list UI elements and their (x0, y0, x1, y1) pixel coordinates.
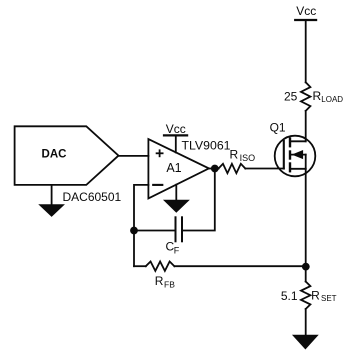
wire R_LOAD to Q1 drain (305, 111, 307, 141)
svg-text:FB: FB (164, 279, 175, 289)
svg-text:R: R (155, 274, 164, 288)
svg-text:Q1: Q1 (270, 121, 286, 135)
resistor R_SET (281, 282, 337, 310)
node junction dot (source / R_FB / R_SET) (302, 263, 310, 271)
capacitor C_F (166, 217, 183, 255)
svg-text:SET: SET (321, 294, 337, 303)
resistor R_ISO (219, 148, 256, 174)
wire to R_FB left end (134, 265, 146, 267)
wire op-amp bottom to ground (175, 185, 177, 201)
ground symbol (DAC) (40, 205, 64, 216)
wire node to C_F left plate (134, 230, 175, 232)
svg-text:F: F (174, 245, 180, 255)
svg-text:Vcc: Vcc (166, 122, 186, 136)
svg-text:LOAD: LOAD (321, 95, 343, 104)
wire op-amp minus input to left (134, 185, 148, 231)
svg-text:TLV9061: TLV9061 (182, 139, 231, 153)
ground symbol (op-amp) (164, 200, 188, 212)
svg-text:DAC60501: DAC60501 (63, 190, 122, 204)
wire node to R_SET (305, 267, 307, 282)
wire Vcc to R_LOAD (305, 20, 307, 82)
ground symbol (R_SET) (293, 335, 318, 348)
wire DAC bottom to ground (51, 185, 53, 205)
wire Q1 source down to node (305, 169, 307, 267)
wire R_ISO to Q1 gate (245, 168, 283, 170)
svg-text:5.1: 5.1 (281, 289, 298, 303)
svg-text:DAC: DAC (42, 149, 67, 161)
node junction dot (C_F / R_FB) (130, 227, 138, 235)
Vcc supply rail (op-amp) (164, 122, 187, 152)
op-amp A1 (148, 139, 209, 198)
svg-text:R: R (230, 148, 239, 162)
DAC block U (DAC60501) (15, 126, 119, 185)
svg-text:R: R (313, 89, 322, 103)
transistor Q1 (NMOS) (275, 136, 316, 177)
svg-text:A1: A1 (166, 161, 181, 175)
resistor R_LOAD (284, 82, 343, 111)
svg-text:ISO: ISO (240, 153, 256, 163)
svg-text:25: 25 (284, 89, 298, 103)
svg-text:Vcc: Vcc (296, 4, 316, 18)
resistor R_FB (146, 262, 175, 290)
svg-text:R: R (311, 288, 320, 302)
wire R_FB to right node (174, 265, 305, 267)
node output junction dot (211, 165, 219, 173)
Vcc supply rail (top right) (295, 4, 316, 20)
wire C_F right plate up to output node (183, 169, 215, 231)
wire op-amp output to R_ISO (209, 168, 219, 170)
wire node down to R_FB (133, 231, 135, 267)
wire DAC output to op-amp + input (119, 155, 149, 157)
wire R_SET to ground (305, 309, 307, 336)
